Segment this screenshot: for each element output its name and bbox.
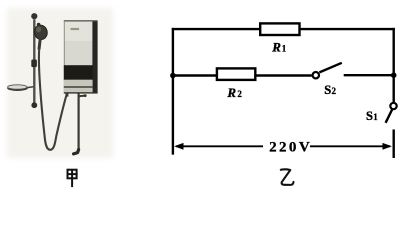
pipe bottom fitting: [74, 150, 79, 154]
wire left: [172, 28, 174, 155]
outlet valve handle: [79, 94, 87, 97]
wire right lower: [393, 130, 395, 159]
wire middle left: [173, 74, 217, 76]
switch S1: [386, 103, 397, 123]
label R1: [271, 39, 287, 54]
shower rail pole: [33, 19, 35, 103]
label 乙: [281, 169, 294, 185]
water heater bottom strip: [64, 80, 98, 94]
label S2: [324, 83, 336, 97]
node right junction: [391, 72, 397, 78]
svg-text:R: R: [226, 85, 236, 100]
resistor R1: [260, 23, 299, 35]
220V dimension arrow left: [174, 143, 263, 150]
220V dimension arrow right: [310, 143, 392, 150]
shower head holder clamp: [31, 60, 37, 68]
svg-text:1: 1: [373, 112, 378, 122]
label 甲: [67, 169, 78, 187]
resistor R2: [217, 68, 255, 80]
wire middle right: [344, 74, 394, 76]
wire middle mid: [255, 74, 312, 76]
node left junction: [170, 73, 176, 79]
svg-text:S: S: [324, 83, 331, 97]
svg-text:2: 2: [332, 86, 337, 96]
photo background: [7, 8, 113, 158]
label S1: [366, 109, 378, 123]
pole top knob: [31, 13, 37, 19]
svg-text:2: 2: [237, 89, 242, 99]
water heater body: [64, 20, 98, 93]
shower head: [33, 23, 49, 41]
heater inlet stub: [66, 93, 69, 96]
switch S2: [313, 63, 342, 79]
svg-text:1: 1: [282, 44, 287, 54]
label R2: [226, 85, 242, 100]
svg-text:220V: 220V: [269, 140, 312, 156]
wire top: [172, 28, 395, 30]
shower hose: [39, 49, 67, 150]
heater outlet pipe: [77, 93, 79, 151]
shower head handle: [39, 39, 40, 50]
soap dish: [7, 85, 33, 91]
water heater brand label: [71, 28, 80, 30]
svg-text:S: S: [366, 109, 373, 123]
wire right upper: [393, 28, 395, 102]
water heater dark panel: [64, 65, 93, 80]
svg-text:R: R: [271, 39, 281, 54]
pole bottom end knob: [31, 102, 37, 108]
